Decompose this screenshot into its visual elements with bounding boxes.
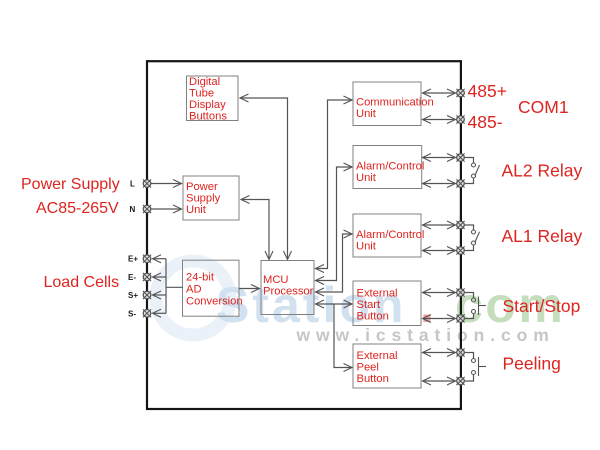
terminal L — [143, 179, 151, 187]
wire branch to External Peel — [334, 304, 352, 368]
svg-text:Peel: Peel — [357, 362, 379, 374]
svg-text:S+: S+ — [128, 291, 138, 300]
svg-text:AD: AD — [186, 284, 202, 296]
terminal Peel a — [456, 348, 464, 356]
wire Peel top — [423, 352, 456, 354]
terminal S- — [143, 309, 151, 317]
terminal AL1 b — [456, 246, 464, 254]
svg-text:Alarm/Control: Alarm/Control — [356, 229, 424, 241]
push button Peeling symbol — [465, 353, 486, 382]
wire E+ — [153, 258, 167, 260]
block: Alarm/Control Unit (AL2) — [353, 146, 424, 189]
wire Power Supply to MCU — [241, 200, 269, 260]
svg-text:AC85-265V: AC85-265V — [36, 200, 119, 217]
svg-text:Button: Button — [357, 311, 389, 323]
load cell bus — [165, 259, 167, 314]
terminal N — [143, 205, 151, 213]
svg-text:Start/Stop: Start/Stop — [503, 296, 581, 316]
svg-text:Buttons: Buttons — [189, 111, 227, 123]
svg-text:Unit: Unit — [356, 108, 377, 120]
terminal S+ — [143, 291, 151, 299]
svg-text:External: External — [357, 288, 398, 300]
wire Digital Tube to MCU — [240, 98, 288, 260]
push button Start/Stop symbol — [465, 293, 486, 319]
terminal E- — [143, 273, 151, 281]
svg-text:AL2 Relay: AL2 Relay — [502, 161, 583, 181]
terminal AL2 b — [456, 179, 464, 187]
svg-text:Tube: Tube — [189, 88, 214, 100]
block: External Peel Button — [353, 344, 421, 388]
svg-text:485-: 485- — [468, 112, 503, 132]
wire AL1 bottom — [423, 250, 456, 252]
terminal AL1 a — [456, 221, 464, 229]
svg-text:Communication: Communication — [356, 97, 434, 109]
wire MCU to Alarm/Control AL2 — [316, 167, 353, 281]
terminal 485+ — [456, 89, 464, 97]
wire MCU to Alarm/Control AL1 — [316, 234, 353, 292]
svg-text:MCU: MCU — [263, 274, 288, 286]
block: Communication Unit — [353, 82, 434, 126]
svg-text:Start: Start — [357, 299, 382, 311]
svg-text:Conversion: Conversion — [186, 296, 243, 308]
block: Digital Tube Display Buttons — [187, 76, 239, 123]
wire S+ — [153, 294, 167, 296]
block: 24-bit AD Conversion — [183, 260, 243, 316]
block: External Start Button — [353, 281, 421, 326]
bus feed to AD — [166, 286, 183, 288]
wire Communication to 485+ — [423, 92, 456, 94]
terminal AL2 a — [456, 153, 464, 161]
svg-text:Processor: Processor — [263, 286, 314, 298]
terminal Start b — [456, 314, 464, 322]
svg-text:Power Supply: Power Supply — [21, 176, 120, 193]
terminal 485- — [456, 115, 464, 123]
svg-text:Alarm/Control: Alarm/Control — [356, 161, 424, 173]
terminal Peel b — [456, 377, 464, 385]
wire N to Power Supply — [151, 208, 182, 210]
svg-text:Power: Power — [186, 181, 218, 193]
wire E- — [153, 276, 167, 278]
relay AL1 symbol — [465, 225, 480, 251]
wire Peel bottom — [423, 380, 456, 382]
svg-text:Display: Display — [189, 99, 226, 111]
wire AD to MCU — [239, 288, 260, 290]
svg-text:E+: E+ — [128, 255, 138, 264]
svg-text:Peeling: Peeling — [503, 354, 561, 374]
wire MCU to Communication — [316, 100, 353, 269]
wire Communication to 485- — [423, 119, 456, 121]
svg-text:Button: Button — [357, 373, 389, 385]
svg-text:E-: E- — [128, 273, 136, 282]
terminal E+ — [143, 255, 151, 263]
svg-text:485+: 485+ — [468, 81, 507, 101]
outer enclosure box — [147, 61, 461, 409]
wire Start top — [423, 292, 456, 294]
wire AL2 bottom — [423, 183, 456, 185]
wire MCU to External Start — [316, 303, 353, 305]
svg-text:Supply: Supply — [186, 193, 221, 205]
block: Power Supply Unit — [183, 176, 239, 220]
terminal Start a — [456, 288, 464, 296]
svg-text:External: External — [357, 350, 398, 362]
svg-text:S-: S- — [128, 309, 136, 318]
wire L to Power Supply — [151, 183, 182, 185]
svg-text:COM1: COM1 — [518, 97, 569, 117]
wire AL1 top — [423, 224, 456, 226]
watermark logo ring — [156, 261, 230, 335]
wire Start bottom — [423, 318, 456, 320]
svg-text:AL1 Relay: AL1 Relay — [502, 226, 583, 246]
svg-text:N: N — [130, 205, 136, 214]
svg-text:Unit: Unit — [186, 204, 207, 216]
svg-text:L: L — [130, 180, 135, 189]
svg-text:Unit: Unit — [356, 241, 377, 253]
block: Alarm/Control Unit (AL1) — [353, 214, 424, 257]
svg-text:Unit: Unit — [356, 172, 377, 184]
relay AL2 symbol — [465, 158, 480, 184]
svg-text:Load Cells: Load Cells — [44, 274, 120, 291]
wire AL2 top — [423, 157, 456, 159]
wire S- — [153, 312, 167, 314]
block: MCU Processor — [261, 261, 314, 315]
svg-text:24-bit: 24-bit — [186, 272, 215, 284]
svg-text:Digital: Digital — [189, 76, 220, 88]
